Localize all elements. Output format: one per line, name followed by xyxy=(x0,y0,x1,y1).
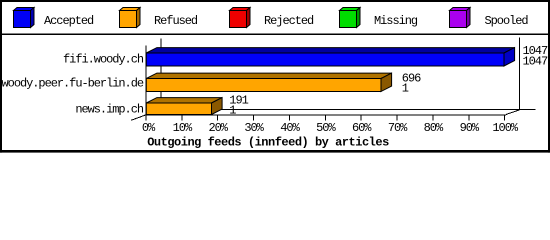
svg-text:60%: 60% xyxy=(352,121,372,135)
svg-text:Rejected: Rejected xyxy=(264,14,314,28)
svg-text:30%: 30% xyxy=(244,121,264,135)
svg-text:Outgoing feeds (innfeed) by ar: Outgoing feeds (innfeed) by articles xyxy=(147,135,389,149)
svg-text:10%: 10% xyxy=(173,121,193,135)
svg-text:fifi.woody.ch: fifi.woody.ch xyxy=(63,53,144,67)
svg-text:woody.peer.fu-berlin.de: woody.peer.fu-berlin.de xyxy=(2,77,144,91)
svg-text:Accepted: Accepted xyxy=(44,14,94,28)
svg-text:1: 1 xyxy=(229,104,236,118)
svg-text:50%: 50% xyxy=(316,121,336,135)
svg-text:news.imp.ch: news.imp.ch xyxy=(75,102,144,116)
svg-text:70%: 70% xyxy=(388,121,408,135)
svg-text:Refused: Refused xyxy=(154,14,198,28)
svg-text:40%: 40% xyxy=(280,121,300,135)
svg-text:0%: 0% xyxy=(142,121,156,135)
svg-text:90%: 90% xyxy=(460,121,480,135)
svg-text:Spooled: Spooled xyxy=(485,14,529,28)
svg-text:20%: 20% xyxy=(208,121,228,135)
svg-text:1047: 1047 xyxy=(523,54,548,68)
svg-text:1: 1 xyxy=(402,81,409,95)
svg-text:Missing: Missing xyxy=(374,14,418,28)
svg-text:100%: 100% xyxy=(492,121,518,135)
svg-text:80%: 80% xyxy=(424,121,444,135)
